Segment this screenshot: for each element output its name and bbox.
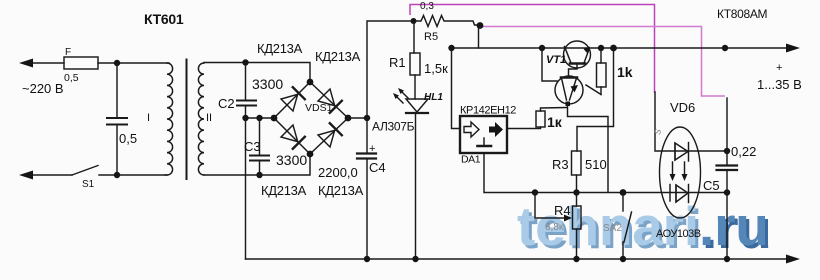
bridge node left: [271, 115, 278, 122]
svg-text:0,22: 0,22: [731, 144, 756, 159]
svg-text:S1: S1: [82, 179, 95, 190]
svg-text:+: +: [776, 62, 782, 74]
adjust wire DA1 ground: [484, 153, 727, 193]
svg-text:R1: R1: [389, 55, 406, 70]
svg-text:SА2: SА2: [603, 223, 622, 234]
svg-text:VDS1: VDS1: [305, 102, 333, 114]
VD6 photothyristor: [669, 185, 671, 202]
svg-text:R4: R4: [554, 203, 571, 218]
svg-text:C2: C2: [218, 96, 235, 111]
diode КД213А top-right: [318, 89, 335, 106]
wire mains bottom: [26, 174, 72, 176]
wire rail to VT2 base: [542, 48, 557, 81]
bridge node bottom: [307, 151, 314, 158]
svg-text:510: 510: [585, 157, 607, 172]
svg-text:F: F: [65, 47, 71, 58]
magenta annotation wire 1: [410, 5, 655, 94]
svg-text:0,3: 0,3: [420, 1, 434, 12]
transformer winding II: [198, 63, 204, 175]
wire rail to R3: [577, 48, 614, 151]
wire mains top: [26, 62, 64, 64]
svg-text:АОУ103В: АОУ103В: [656, 228, 701, 240]
VD6 led diode: [674, 143, 676, 160]
switch SA2: [622, 193, 624, 212]
svg-text:R3: R3: [552, 157, 569, 172]
svg-text:1k: 1k: [617, 64, 633, 80]
svg-text:КД213А: КД213А: [318, 183, 364, 198]
wire DC-plus: [348, 117, 367, 119]
mains input arrow bottom: [19, 171, 33, 180]
svg-text:0,5: 0,5: [64, 72, 79, 84]
svg-text:DA1: DA1: [461, 154, 481, 166]
wire secondary AC2: [204, 154, 310, 175]
VD6 light arrows: [672, 162, 674, 177]
node junction C1 top: [114, 60, 120, 66]
svg-text:АЛ307Б: АЛ307Б: [372, 120, 415, 134]
magenta annotation wire 2: [482, 27, 725, 97]
mains input arrow top: [19, 59, 33, 68]
svg-text:I: I: [147, 112, 150, 124]
resistor 1к (left): [536, 111, 545, 127]
capacitor C3: [259, 118, 261, 155]
svg-text:HL1: HL1: [424, 92, 443, 103]
svg-text:VD6: VD6: [670, 100, 695, 115]
transistor VT1: [564, 41, 591, 68]
svg-text:6,8к: 6,8к: [545, 222, 564, 233]
wire secondary top rail: [204, 63, 310, 83]
optocoupler VD6 АОУ103В ellipse: [660, 127, 701, 218]
watermark tehnari.ru: [517, 195, 772, 260]
capacitor C4 2200,0: [366, 118, 368, 154]
svg-text:1...35 В: 1...35 В: [757, 77, 802, 92]
bottom rail: [246, 258, 793, 260]
svg-text:2200,0: 2200,0: [318, 165, 358, 180]
transformer core: [186, 60, 188, 180]
potentiometer R4: [573, 206, 582, 229]
transistor VT2: [555, 76, 583, 104]
bridge node top: [307, 79, 314, 86]
diode КД213А top-left: [281, 94, 298, 111]
svg-text:3300: 3300: [276, 152, 307, 168]
svg-text:II: II: [206, 112, 212, 124]
regulator DA1 КР142ЕН12: [460, 116, 507, 153]
svg-text:3300: 3300: [252, 76, 283, 92]
main output rail: [451, 47, 792, 49]
svg-text:VT1: VT1: [546, 54, 566, 66]
capacitor C5 0,22: [726, 98, 728, 165]
capacitor C1: [116, 63, 118, 118]
node R5 left: [411, 18, 417, 24]
svg-text:R5: R5: [424, 31, 438, 43]
wire DC-minus drop (crosses AC wire, no dot): [245, 118, 247, 259]
LED HL1 АЛ307Б: [406, 99, 428, 112]
riser DC-plus: [367, 21, 411, 118]
switch S1: [72, 166, 98, 176]
svg-text:+: +: [369, 143, 375, 155]
svg-text:~220 В: ~220 В: [22, 81, 64, 96]
svg-text:КД213А: КД213А: [257, 41, 303, 56]
svg-text:КР142ЕН12: КР142ЕН12: [460, 105, 516, 117]
DA1 output wire: [507, 127, 541, 129]
node junction C2 top: [242, 59, 248, 65]
svg-text:КТ808АМ: КТ808АМ: [717, 7, 768, 21]
resistor R3 510: [572, 151, 582, 175]
svg-text:1к: 1к: [547, 114, 563, 130]
transformer winding I: [167, 63, 173, 175]
wire VT2 emitter down: [568, 104, 609, 192]
fuse F 0,5: [64, 57, 98, 69]
wire mid DC-minus: [246, 117, 275, 119]
wire sense to VD6/C5: [655, 92, 727, 151]
bridge node right: [345, 115, 352, 122]
svg-text:КД213А: КД213А: [261, 183, 307, 198]
riser to DA1 input: [452, 48, 461, 129]
svg-text:C3: C3: [244, 139, 261, 154]
resistor R1 1,5к: [413, 21, 415, 53]
node junction S1-C1: [114, 172, 120, 178]
svg-text:КТ601: КТ601: [144, 11, 184, 27]
capacitor C2: [245, 63, 247, 101]
svg-text:C4: C4: [369, 160, 386, 175]
svg-text:1,5к: 1,5к: [424, 61, 448, 76]
svg-text:0,5: 0,5: [119, 131, 137, 146]
diode КД213А bottom-right: [318, 130, 335, 147]
diode КД213А bottom-left: [281, 125, 298, 142]
resistor 1k (right): [597, 63, 607, 87]
node R5 right: [477, 22, 484, 29]
svg-text:C5: C5: [703, 178, 720, 193]
resistor R5 0,3 zigzag: [414, 16, 481, 27]
svg-text:КД213А: КД213А: [315, 49, 361, 64]
bridge VDS1 edges: [274, 82, 310, 118]
